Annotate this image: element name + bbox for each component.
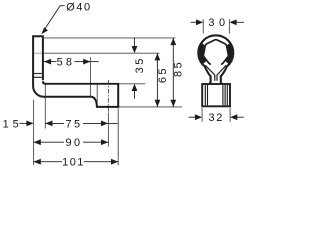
svg-text:85: 85 [173, 60, 185, 77]
svg-text:35: 35 [134, 56, 146, 73]
svg-text:32: 32 [208, 112, 224, 124]
svg-text:65: 65 [157, 66, 169, 83]
svg-text:Ø40: Ø40 [66, 2, 91, 14]
svg-text:15: 15 [3, 118, 23, 130]
svg-text:30: 30 [208, 17, 229, 29]
svg-text:90: 90 [65, 137, 82, 149]
svg-text:58: 58 [57, 57, 76, 69]
svg-text:75: 75 [65, 118, 82, 130]
svg-text:101: 101 [62, 157, 85, 169]
